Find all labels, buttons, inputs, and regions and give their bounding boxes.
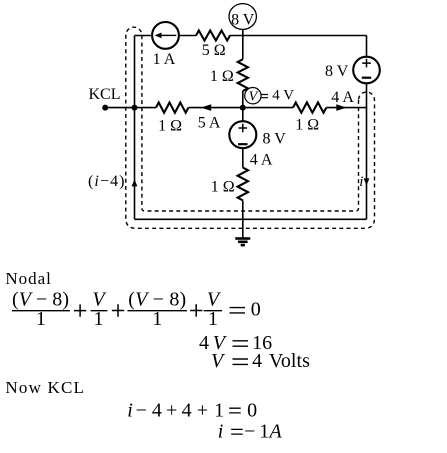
- top rail wire: [135, 35, 367, 37]
- svg-text:1 Ω: 1 Ω: [210, 68, 234, 85]
- svg-text:5 Ω: 5 Ω: [202, 42, 226, 59]
- svg-text:1: 1: [214, 400, 224, 422]
- svg-text:0: 0: [247, 400, 257, 422]
- math row1: plus signs and = 0: [74, 304, 86, 316]
- svg-text:(i−4): (i−4): [88, 173, 125, 190]
- svg-text:i: i: [218, 421, 224, 443]
- node label (8 V) top: [229, 4, 256, 30]
- center wire: [242, 27, 244, 220]
- svg-text:i: i: [359, 174, 363, 190]
- svg-text:Now KCL: Now KCL: [5, 378, 84, 397]
- svg-text:1 A: 1 A: [153, 51, 176, 68]
- svg-text:4: 4: [199, 332, 209, 354]
- svg-text:4 A: 4 A: [250, 151, 273, 168]
- svg-text:1: 1: [208, 308, 218, 330]
- svg-text:1: 1: [259, 421, 269, 443]
- svg-text:8 V: 8 V: [325, 63, 349, 80]
- svg-text:+: +: [197, 400, 208, 422]
- resistor R 1ohm (middle right): [293, 101, 326, 114]
- resistor R 5ohm (top): [196, 30, 230, 41]
- arrow i down on right wire: [364, 178, 370, 185]
- svg-text:4: 4: [182, 400, 192, 422]
- svg-text:0: 0: [251, 299, 261, 321]
- arrow 5A (pointing left on middle rail): [201, 104, 211, 111]
- svg-text:4: 4: [252, 350, 262, 372]
- node dot (left free end): [102, 105, 108, 111]
- middle rail wire: [105, 107, 367, 109]
- KCL Gaussian surface dashed boundary: [126, 27, 375, 228]
- voltage source V middle 8V: [229, 121, 256, 148]
- label = 4 V: [260, 95, 268, 98]
- svg-text:8 V: 8 V: [263, 131, 287, 148]
- svg-text:5 A: 5 A: [198, 114, 221, 131]
- voltage source V right 8V: [353, 57, 380, 84]
- math row1: fraction bars: [12, 310, 222, 312]
- svg-text:4 V: 4 V: [272, 88, 294, 104]
- svg-text:1 Ω: 1 Ω: [158, 118, 182, 135]
- resistor R 1ohm (middle left): [156, 101, 188, 114]
- arrow (i-4) up on left wire: [132, 179, 138, 186]
- left wire: [134, 36, 136, 220]
- svg-text:A: A: [268, 421, 283, 443]
- svg-text:V: V: [249, 90, 259, 105]
- ground: [235, 219, 250, 245]
- svg-text:1: 1: [94, 308, 104, 330]
- bottom rail wire: [135, 218, 367, 220]
- svg-text:1: 1: [36, 308, 46, 330]
- svg-text:KCL: KCL: [89, 86, 121, 103]
- svg-text:i: i: [127, 400, 133, 422]
- arrow 4A (pointing right on middle rail): [336, 104, 346, 111]
- right wire: [366, 36, 368, 220]
- svg-text:Volts: Volts: [269, 350, 310, 372]
- node dot (left wire junction): [132, 105, 138, 111]
- svg-text:1: 1: [152, 308, 162, 330]
- svg-text:1 Ω: 1 Ω: [295, 117, 319, 134]
- current source I1 1A: [152, 22, 179, 49]
- svg-text:4 A: 4 A: [331, 89, 354, 106]
- resistor R 1ohm (vertical bottom): [237, 168, 250, 201]
- svg-text:Nodal: Nodal: [5, 269, 51, 288]
- svg-text:(V − 8): (V − 8): [12, 288, 69, 310]
- svg-text:−: −: [244, 421, 255, 443]
- svg-text:4: 4: [152, 400, 162, 422]
- svg-text:8 V: 8 V: [231, 11, 255, 28]
- resistor R 1ohm (vertical top): [237, 59, 250, 91]
- svg-text:−: −: [136, 400, 147, 422]
- node label V = 4V circled: [245, 88, 261, 105]
- svg-text:(V − 8): (V − 8): [128, 288, 186, 310]
- svg-text:+: +: [166, 400, 177, 422]
- svg-text:1 Ω: 1 Ω: [211, 178, 235, 195]
- node dot (center junction): [240, 105, 246, 111]
